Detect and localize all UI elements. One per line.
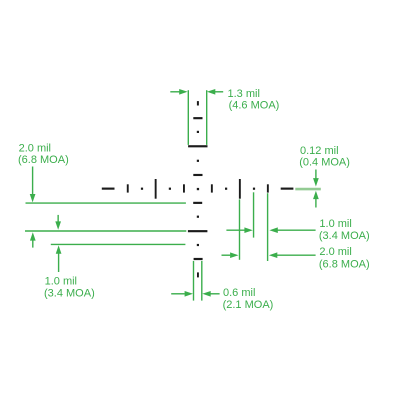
vert dot -2 — [197, 160, 199, 162]
left line1 — [26, 202, 186, 204]
dot +2 — [225, 188, 227, 190]
svg-text:(3.4 MOA): (3.4 MOA) — [44, 288, 95, 300]
row1 arrow left tail — [277, 229, 316, 231]
top bracket ext right — [206, 90, 208, 145]
vert dot +4 — [197, 244, 199, 246]
left line3 — [51, 243, 186, 245]
svg-text:2.0 mil: 2.0 mil — [19, 142, 51, 154]
vert dash +5 — [194, 258, 203, 260]
bottom bracket ext left — [193, 261, 195, 301]
right ext B — [253, 192, 255, 237]
0.12 up arrow head — [313, 191, 319, 199]
bottom arrow right tail — [171, 293, 185, 295]
top arrow left head — [207, 89, 215, 95]
row1 arrow right tail — [226, 229, 245, 231]
vert tick +6 — [197, 272, 199, 277]
left 2.0 up arrow head — [30, 232, 36, 240]
tick -5 — [127, 184, 129, 192]
left 2.0 down arrow tail — [32, 167, 34, 196]
tick -1 — [183, 184, 185, 192]
tick +5 — [267, 184, 269, 192]
right ext C — [267, 193, 269, 261]
top arrow right head — [179, 89, 187, 95]
vert wide dash +3 — [188, 230, 208, 232]
bottom arrow left head — [202, 291, 210, 297]
bottom bracket ext right — [201, 261, 203, 301]
dot -4 — [141, 188, 143, 190]
vert dash -1 — [193, 174, 202, 176]
top arrow left tail — [211, 91, 223, 93]
row2 arrow left tail — [277, 254, 316, 256]
dot -2 — [169, 188, 171, 190]
tall tick -3 — [155, 179, 157, 199]
row2 arrow right head — [230, 252, 238, 258]
dot +4 — [253, 188, 255, 190]
right ext A — [239, 199, 241, 259]
top arrow right tail — [170, 91, 184, 93]
svg-text:(3.4 MOA): (3.4 MOA) — [319, 230, 370, 242]
svg-text:1.0 mil: 1.0 mil — [45, 276, 77, 288]
horizontal bar left — [102, 188, 115, 190]
left 1.0 down arrow head — [55, 221, 61, 229]
vert dash +1 — [193, 202, 202, 204]
horizontal bar right — [281, 188, 294, 190]
row2 arrow left head — [269, 252, 277, 258]
vert dot +2 — [197, 216, 199, 218]
vert wide dash -3 — [188, 145, 207, 147]
svg-text:1.0 mil: 1.0 mil — [319, 218, 351, 230]
tick +1 — [211, 184, 213, 192]
0.12 up arrow tail — [315, 198, 317, 208]
left line2 — [25, 230, 186, 232]
left 1.0 down arrow tail — [57, 215, 59, 223]
row1 arrow right head — [244, 227, 252, 233]
0.12 mil light bar — [295, 188, 321, 191]
svg-text:(6.8 MOA): (6.8 MOA) — [18, 154, 69, 166]
left 2.0 up arrow tail — [32, 240, 34, 248]
center dot — [197, 188, 199, 190]
svg-text:2.0 mil: 2.0 mil — [319, 246, 351, 258]
top bracket ext left — [187, 90, 189, 145]
0.12 down arrow head — [313, 178, 319, 186]
vert tick -6 — [197, 101, 199, 105]
tall tick +3 — [239, 179, 241, 199]
vert dash -5 — [193, 117, 202, 119]
row1 arrow left head — [269, 227, 277, 233]
left 1.0 up arrow head — [56, 245, 62, 253]
row2 arrow right tail — [222, 254, 231, 256]
svg-text:(0.4 MOA): (0.4 MOA) — [299, 157, 350, 169]
bottom arrow left tail — [211, 293, 220, 295]
svg-text:(2.1 MOA): (2.1 MOA) — [223, 299, 274, 311]
left 2.0 down arrow head — [30, 194, 36, 202]
svg-text:(4.6 MOA): (4.6 MOA) — [229, 100, 280, 112]
svg-text:0.12 mil: 0.12 mil — [300, 145, 339, 157]
vert dot -4 — [197, 131, 199, 133]
bottom arrow right head — [185, 291, 193, 297]
svg-text:(6.8 MOA): (6.8 MOA) — [319, 259, 370, 271]
left 1.0 up arrow tail — [58, 253, 60, 272]
0.12 down arrow tail — [315, 170, 317, 180]
svg-text:1.3 mil: 1.3 mil — [228, 88, 260, 100]
svg-text:0.6 mil: 0.6 mil — [223, 287, 255, 299]
